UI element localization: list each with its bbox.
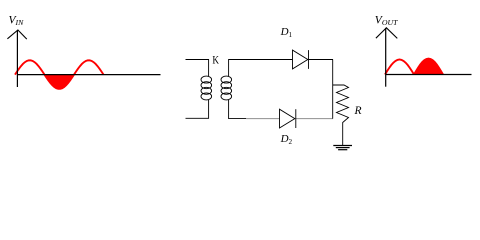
Vout second hump stroke: [414, 59, 443, 75]
Vout second hump filled: [414, 59, 443, 75]
wire junction vertical: [332, 60, 334, 119]
ground: [333, 146, 352, 150]
transformer primary coil: [201, 76, 212, 100]
transformer secondary bottom lead: [229, 100, 247, 119]
svg-text:VIN: VIN: [9, 15, 25, 28]
transformer primary top lead: [186, 60, 209, 77]
resistor R: [333, 85, 349, 145]
Vin negative half-cycle filled: [45, 75, 75, 89]
wire gray to D2 anode: [246, 118, 279, 120]
transformer primary bottom lead: [186, 100, 209, 119]
Vout axis arrowhead: [376, 28, 397, 39]
Vin axis vertical: [16, 30, 18, 87]
transformer secondary top lead / wire to D1: [229, 60, 293, 77]
wire gray D2 cathode to junction: [296, 118, 333, 120]
diode D2: [280, 109, 296, 128]
wire D1 cathode to junction: [309, 59, 334, 61]
Vout first hump outline: [385, 60, 414, 75]
Vout axis horizontal: [386, 74, 472, 76]
transformer secondary coil: [221, 76, 232, 100]
Vin axis horizontal: [17, 74, 160, 76]
svg-text:D2: D2: [280, 133, 293, 146]
svg-text:D1: D1: [280, 26, 293, 39]
svg-text:K: K: [212, 55, 219, 67]
Vin axis arrowhead: [7, 30, 26, 39]
diode D1: [293, 50, 309, 69]
Vout axis vertical: [385, 28, 387, 87]
svg-text:VOUT: VOUT: [375, 14, 398, 27]
svg-text:R: R: [354, 105, 362, 117]
Vin sine wave: [15, 60, 104, 88]
